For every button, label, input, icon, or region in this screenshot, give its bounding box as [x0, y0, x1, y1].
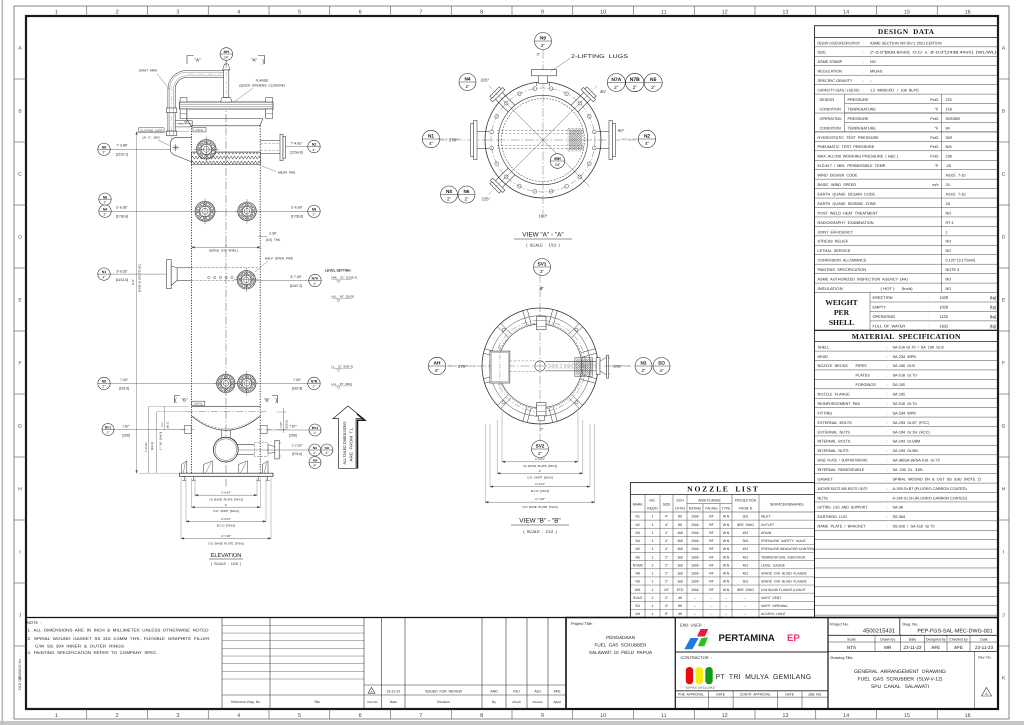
svg-text:AFE: AFE — [931, 645, 940, 650]
nozzle label N1 — [98, 268, 110, 280]
svg-text:W.N: W.N — [723, 539, 730, 543]
svg-text:BASE PLATE / SUPPORT/REPAD: BASE PLATE / SUPPORT/REPAD — [818, 459, 868, 463]
nozzle label SV1 — [534, 259, 551, 276]
svg-text:N4: N4 — [465, 77, 471, 82]
svg-text:MH: MH — [224, 50, 230, 54]
nozzle label BV1 — [102, 424, 114, 436]
svg-text:451: 451 — [743, 572, 749, 576]
svg-text:ISSUED FOR REVIEW: ISSUED FOR REVIEW — [425, 689, 463, 693]
svg-text:ASME SECTION VIII DIV.1 2021 E: ASME SECTION VIII DIV.1 2021 EDITION — [870, 41, 942, 45]
svg-text:PERTAMINA: PERTAMINA — [719, 633, 775, 644]
svg-text:SIZE: SIZE — [818, 51, 827, 55]
svg-text:NAME PLATE / BRACKET: NAME PLATE / BRACKET — [818, 525, 867, 529]
svg-text:3'-9.35": 3'-9.35" — [116, 269, 128, 273]
svg-text::: : — [863, 60, 864, 64]
nozzle N1 inlet — [167, 260, 172, 289]
vessel vertical centerline — [225, 60, 227, 487]
svg-text:4": 4" — [103, 275, 106, 279]
svg-text:0°: 0° — [537, 53, 541, 57]
svg-text:FITTING: FITTING — [818, 411, 833, 415]
svg-text:SCH: SCH — [676, 499, 684, 503]
bottom seam line and tag — [192, 405, 261, 407]
svg-text:270°: 270° — [449, 138, 458, 143]
svg-text:INSULATION: INSULATION ( HOT ) (Inch) — [818, 287, 914, 291]
svg-text:501: 501 — [743, 539, 749, 543]
svg-text:TEMPERATURE: TEMPERATURE — [848, 126, 877, 130]
nozzle label N6 — [458, 186, 475, 203]
svg-text:LEVEL GAUGE: LEVEL GAUGE — [761, 563, 786, 567]
center pipe section — [535, 361, 545, 371]
svg-text:DATE: DATE — [716, 693, 725, 697]
svg-text:SPARE C/W BLIND FLANGE: SPARE C/W BLIND FLANGE — [761, 580, 808, 584]
svg-text:24": 24" — [555, 163, 561, 167]
svg-text:REQ'D: REQ'D — [647, 507, 658, 511]
flange label leader — [234, 88, 253, 102]
svg-text:8": 8" — [435, 368, 440, 373]
svg-text:RF: RF — [709, 547, 714, 551]
svg-text:1'-7.85" [594.3]: 1'-7.85" [594.3] — [160, 432, 163, 450]
svg-text:[2256.8]: [2256.8] — [290, 151, 302, 155]
svg-text:( SCALE : 1/12 ): ( SCALE : 1/12 ) — [526, 243, 560, 248]
svg-text:15: 15 — [904, 713, 910, 719]
svg-text:12: 12 — [722, 713, 728, 719]
svg-text:STRESS RELIEF: STRESS RELIEF — [818, 240, 849, 244]
svg-text:REGULATION: REGULATION — [818, 70, 843, 74]
svg-text:Rev.No.: Rev.No. — [367, 700, 378, 704]
svg-text:HYDROSTATIC TEST PRESSURE: HYDROSTATIC TEST PRESSURE — [818, 136, 880, 140]
drain pipe to the right — [545, 360, 596, 362]
svg-text:451: 451 — [743, 563, 749, 567]
svg-text:PT TRI MULYA GEMILANG: PT TRI MULYA GEMILANG — [716, 674, 812, 681]
svg-text:REINFORCEMENT PAD: REINFORCEMENT PAD — [818, 402, 861, 406]
svg-text:RF: RF — [709, 555, 714, 559]
svg-text:INTERNAL NUTS: INTERNAL NUTS — [818, 449, 850, 453]
svg-text:STD: STD — [677, 588, 684, 592]
svg-text:POST WELD HEAT TREATMENT: POST WELD HEAT TREATMENT — [818, 211, 879, 215]
svg-text:CAPACITY (GAS / LIQUID): CAPACITY (GAS / LIQUID) — [818, 89, 861, 93]
svg-text:AH: AH — [434, 361, 441, 367]
svg-text::: : — [887, 525, 888, 529]
svg-text:NO: NO — [946, 278, 952, 282]
cone transition — [186, 118, 263, 120]
svg-text:150#: 150# — [691, 531, 699, 535]
svg-text:–: – — [711, 612, 713, 616]
drain flange and hub — [596, 358, 600, 375]
svg-text:9: 9 — [541, 10, 544, 16]
svg-text:SHELL: SHELL — [829, 318, 854, 327]
svg-text:NO: NO — [946, 240, 952, 244]
bolted flange face (front view) — [238, 202, 257, 221]
svg-text:N6: N6 — [464, 189, 470, 194]
svg-text:Date: Date — [909, 637, 916, 641]
svg-text:2A: 2A — [946, 202, 951, 206]
svg-text:ARE FROM T.L: ARE FROM T.L — [349, 427, 354, 462]
svg-text:1'-2.92": 1'-2.92" — [291, 443, 303, 447]
svg-text:NTS: NTS — [847, 645, 856, 650]
svg-text::: : — [887, 374, 888, 378]
half open pipe label — [255, 261, 268, 272]
skirt height dims rotated — [148, 406, 150, 473]
svg-text:HALF OPEN PIPE: HALF OPEN PIPE — [265, 257, 293, 261]
svg-text:WIND DESIGN CODE: WIND DESIGN CODE — [818, 174, 858, 178]
svg-text:PsiG: PsiG — [930, 136, 938, 140]
svg-text:[94.7]: [94.7] — [167, 422, 170, 428]
svg-text:[200.0]: [200.0] — [285, 420, 289, 429]
approval strip — [675, 690, 828, 692]
svg-text:2-LIFTING LUGS: 2-LIFTING LUGS — [571, 54, 629, 60]
lifting eye on stem — [223, 64, 231, 70]
svg-text:NOZZLE NECKS: NOZZLE NECKS — [818, 364, 849, 368]
svg-text:PHE APPROVAL: PHE APPROVAL — [678, 693, 704, 697]
svg-text:N6: N6 — [636, 555, 640, 559]
svg-text:5: 5 — [298, 10, 301, 16]
svg-text:F: F — [18, 361, 21, 367]
svg-text:2": 2" — [641, 368, 645, 373]
svg-text:LLL 15" [381]: LLL 15" [381] — [332, 382, 352, 386]
svg-text:Project No.: Project No. — [830, 623, 849, 627]
N2 dimension and label — [286, 146, 309, 148]
nozzle label N3 — [635, 358, 652, 375]
svg-text:MARK: MARK — [633, 503, 644, 507]
svg-text:1: 1 — [652, 555, 654, 559]
revision row: ISSUED FOR REVIEW — [364, 684, 566, 686]
nozzle label N2 — [308, 140, 320, 152]
svg-text:GENERAL ARRANGEMENT DRAWING: GENERAL ARRANGEMENT DRAWING — [854, 669, 946, 675]
svg-text:CONDITION: CONDITION — [820, 126, 842, 130]
table: DESIGN DATA — [815, 26, 999, 331]
nozzle stub at 45 deg — [565, 79, 603, 117]
vessel shell walls — [191, 126, 193, 412]
svg-text:ASME STAMP: ASME STAMP — [818, 60, 843, 64]
closure bolts right — [266, 98, 273, 102]
svg-text:24: 24 — [946, 183, 950, 187]
svg-text:2": 2" — [541, 43, 545, 48]
svg-text:150#: 150# — [691, 547, 699, 551]
svg-text:(QUICK OPENING CLOSURE): (QUICK OPENING CLOSURE) — [239, 84, 285, 88]
svg-text:H: H — [18, 487, 22, 493]
svg-text:2": 2" — [107, 431, 110, 435]
dimension stack under view B — [501, 412, 503, 462]
svg-text:PENGADAAN: PENGADAAN — [606, 635, 635, 640]
svg-text:VIEW "A" - "A": VIEW "A" - "A" — [522, 232, 563, 239]
svg-text:2": 2" — [633, 85, 638, 91]
svg-text:OLD DRAWING No. : ..´: OLD DRAWING No. : ..´ — [18, 652, 22, 690]
tailed dimensions arrow note — [333, 406, 364, 468]
drain flange (hidden) — [254, 443, 268, 457]
davit support bracket — [175, 121, 192, 127]
svg-text:[1152.0]: [1152.0] — [116, 278, 128, 282]
svg-text:SA-516 Gr.70: SA-516 Gr.70 — [893, 402, 917, 406]
svg-text:35/53/65: 35/53/65 — [946, 117, 961, 121]
svg-text:I.D BASE PLATE [549.6]: I.D BASE PLATE [549.6] — [523, 464, 557, 468]
project title box — [674, 618, 676, 710]
svg-text:PsiG: PsiG — [930, 155, 938, 159]
svg-text:4500215431: 4500215431 — [863, 628, 895, 635]
bottom dished head — [192, 416, 261, 430]
svg-text:501: 501 — [743, 580, 749, 584]
svg-text:°F: °F — [935, 107, 940, 111]
svg-text:10: 10 — [600, 10, 606, 16]
svg-text:11: 11 — [661, 713, 667, 719]
svg-text:270°: 270° — [458, 364, 467, 369]
svg-text:Review: Review — [533, 700, 544, 704]
svg-text::: : — [887, 515, 888, 519]
svg-text:N1: N1 — [428, 134, 434, 140]
svg-text:4. PAINTING SPECIFICATION R: 4. PAINTING SPECIFICATION REFER TO COMPA… — [28, 650, 157, 655]
svg-text:N8: N8 — [446, 189, 452, 194]
svg-text:ACCESS HOLE: ACCESS HOLE — [761, 612, 786, 616]
svg-text::: : — [887, 487, 888, 491]
svg-text:A-193 Gr.B7 (FLUORO CARBON COA: A-193 Gr.B7 (FLUORO CARBON COATED) — [893, 487, 968, 491]
svg-text:SA-516 Gr.70 / SA 106 Gr.B: SA-516 Gr.70 / SA 106 Gr.B — [893, 345, 945, 349]
bolted flange face (front view) — [195, 201, 215, 221]
svg-text:2": 2" — [104, 201, 107, 205]
svg-text:N3: N3 — [641, 361, 647, 366]
svg-text:SPECIFIC GRAVITY: SPECIFIC GRAVITY — [818, 79, 853, 83]
svg-text:SA-193 Gr.B8M: SA-193 Gr.B8M — [893, 440, 921, 444]
svg-text:ERECTION: ERECTION — [873, 295, 893, 300]
svg-text:SA-105: SA-105 — [893, 383, 906, 387]
svg-text:SA-194 Gr.2H (FCC): SA-194 Gr.2H (FCC) — [893, 430, 931, 434]
svg-text::: : — [928, 305, 929, 310]
svg-text::: : — [887, 345, 888, 349]
svg-text:PsiG: PsiG — [930, 98, 938, 102]
svg-text:CW-01: CW-01 — [195, 129, 204, 132]
svg-text:SKIRT OPENING: SKIRT OPENING — [761, 604, 788, 608]
svg-text:N3: N3 — [636, 531, 640, 535]
svg-text:NUTS: NUTS — [818, 496, 829, 500]
nozzle label N1 — [422, 130, 439, 147]
svg-text:0°: 0° — [540, 428, 544, 432]
svg-text:RF: RF — [709, 588, 714, 592]
svg-text:160: 160 — [677, 531, 683, 535]
svg-text:2": 2" — [313, 213, 316, 217]
svg-text:150#: 150# — [691, 580, 699, 584]
svg-text:N2: N2 — [644, 134, 650, 140]
svg-text:[1700.6]: [1700.6] — [116, 214, 128, 218]
svg-text:F: F — [1002, 361, 1005, 367]
svg-text:13: 13 — [782, 713, 788, 719]
svg-text:W.N: W.N — [723, 523, 730, 527]
svg-text:2": 2" — [103, 151, 106, 155]
svg-text:236: 236 — [946, 155, 952, 159]
svg-text:[609.6] O.D SHELL: [609.6] O.D SHELL — [209, 249, 238, 253]
svg-text:MESH PAD: MESH PAD — [278, 171, 296, 175]
bottom vent stub — [537, 403, 546, 416]
svg-text:7.20": 7.20" — [120, 378, 129, 382]
svg-text:AH: AH — [635, 612, 640, 616]
nozzle label MH — [220, 48, 233, 61]
svg-text:C: C — [1002, 172, 1006, 178]
svg-text:40: 40 — [678, 612, 682, 616]
svg-text:DATE: DATE — [785, 693, 794, 697]
svg-text:–: – — [725, 596, 727, 600]
svg-text:2: 2 — [116, 10, 119, 16]
svg-text:[579.0]: [579.0] — [292, 452, 302, 456]
svg-text:RF: RF — [709, 515, 714, 519]
svg-text:16: 16 — [965, 10, 971, 16]
svg-text:RF: RF — [709, 580, 714, 584]
svg-text:ANSI FLANGE: ANSI FLANGE — [698, 498, 721, 502]
svg-text:PRESSURE: PRESSURE — [848, 117, 869, 121]
drain elbow — [213, 437, 238, 462]
svg-text:C/W SS 304 INNER & OUTER: C/W SS 304 INNER & OUTER RINGS — [35, 644, 124, 649]
svg-text:O.D BASE PLATE [799.6]: O.D BASE PLATE [799.6] — [208, 541, 244, 545]
section cut marker A left — [187, 56, 194, 65]
svg-text:N5: N5 — [650, 77, 657, 83]
svg-text:TEMPERATURE: TEMPERATURE — [848, 107, 877, 111]
svg-text:"SERVICE EXCELLENCE": "SERVICE EXCELLENCE" — [685, 686, 717, 689]
svg-text::: : — [887, 355, 888, 359]
davit lower end — [166, 131, 177, 136]
svg-text:15: 15 — [904, 10, 910, 16]
svg-text:EARTH QUAKE DESAIN CODE: EARTH QUAKE DESAIN CODE — [818, 192, 876, 196]
svg-text:6: 6 — [359, 10, 362, 16]
svg-text:315°: 315° — [481, 78, 490, 83]
svg-text:D: D — [18, 235, 22, 241]
svg-text:2-LIFTING LUGS: 2-LIFTING LUGS — [140, 129, 163, 133]
grid reference ticks and numbers — [86, 6, 88, 16]
svg-text:N5: N5 — [102, 379, 106, 383]
svg-text:PLATES: PLATES — [856, 374, 871, 378]
svg-text::: : — [863, 89, 864, 93]
svg-text:SV1: SV1 — [538, 262, 547, 267]
svg-text:AH: AH — [313, 459, 318, 463]
nozzle label N7A — [607, 74, 625, 92]
svg-text:NO: NO — [870, 60, 876, 64]
svg-text:AFE: AFE — [954, 645, 963, 650]
shell flange circles — [485, 82, 601, 198]
svg-text:I: I — [1003, 550, 1004, 556]
section cut marker A right — [258, 56, 265, 65]
svg-text:Date: Date — [390, 700, 397, 704]
svg-text:3: 3 — [176, 713, 179, 719]
svg-text:270°: 270° — [614, 364, 623, 369]
svg-text:RADIOGRAPHY EXAMINATION: RADIOGRAPHY EXAMINATION — [818, 221, 874, 225]
svg-text::: : — [887, 383, 888, 387]
svg-text:HEAD: HEAD — [818, 355, 829, 359]
svg-text:ASCE 7-10: ASCE 7-10 — [946, 192, 966, 196]
nozzle label N8 — [441, 186, 458, 203]
section cut marker B left — [175, 396, 181, 404]
skirt access holes — [575, 328, 578, 331]
svg-text:451: 451 — [743, 531, 749, 535]
svg-text:N O Z Z L E L I S T: N O Z Z L E L I S T — [687, 485, 758, 494]
svg-text:NOTE :: NOTE : — [27, 620, 41, 625]
svg-text:0.38": 0.38" — [269, 231, 276, 235]
svg-text:N2: N2 — [636, 523, 640, 527]
N9 dimension and label (left) — [109, 148, 170, 150]
svg-text:LEVEL SETTING: LEVEL SETTING — [325, 269, 351, 273]
svg-text:PRESSURE INDICATOR CONTROL: PRESSURE INDICATOR CONTROL — [761, 547, 815, 551]
svg-text:3.11": 3.11" — [161, 422, 164, 427]
half open pipe (hidden) — [192, 266, 259, 268]
svg-text:°F: °F — [935, 164, 940, 168]
svg-text:80: 80 — [678, 604, 682, 608]
svg-text:4: 4 — [237, 10, 240, 16]
svg-text:225: 225 — [946, 98, 952, 102]
svg-text:2": 2" — [313, 385, 316, 389]
svg-text:RF: RF — [709, 523, 714, 527]
svg-text:0°: 0° — [540, 287, 544, 291]
svg-text:END USER :: END USER : — [680, 622, 705, 627]
svg-text:PROJECTION: PROJECTION — [735, 499, 757, 503]
svg-text:TEMPERATURE INDICATOR: TEMPERATURE INDICATOR — [761, 555, 806, 559]
svg-text:23-11-23: 23-11-23 — [975, 645, 993, 650]
shell top weld tag — [193, 128, 206, 132]
svg-text:SERVICE/REMARKS: SERVICE/REMARKS — [770, 503, 804, 507]
svg-text:2": 2" — [104, 213, 107, 217]
svg-text:ARD: ARD — [490, 689, 498, 693]
mesh pad label leader — [262, 166, 276, 172]
svg-text:[1097.2]: [1097.2] — [290, 284, 302, 288]
svg-text:8'-0": 8'-0" — [131, 279, 135, 285]
svg-text:B.C.D [709.6]: B.C.D [709.6] — [217, 523, 235, 527]
svg-text:N9: N9 — [636, 580, 640, 584]
nozzle label SO — [321, 444, 333, 456]
svg-text:N2: N2 — [312, 143, 316, 147]
svg-text:PIPES: PIPES — [856, 364, 868, 368]
svg-text::: : — [928, 295, 929, 300]
svg-text:1: 1 — [55, 10, 58, 16]
svg-text::: : — [887, 449, 888, 453]
svg-text:W.N: W.N — [723, 563, 730, 567]
svg-text:Drawn by: Drawn by — [880, 637, 895, 641]
svg-text:BV2: BV2 — [312, 426, 319, 430]
svg-text:SA-194 Gr.8M: SA-194 Gr.8M — [893, 449, 918, 453]
svg-text:(AT 0°, 180°): (AT 0°, 180°) — [142, 136, 160, 140]
svg-text:SA-516 Gr.70: SA-516 Gr.70 — [893, 374, 917, 378]
svg-text:160: 160 — [677, 539, 683, 543]
svg-text:RF: RF — [709, 572, 714, 576]
svg-text:2": 2" — [614, 85, 619, 90]
svg-text:VIEW "B" - "B": VIEW "B" - "B" — [519, 518, 560, 525]
flange bolts — [592, 146, 596, 150]
svg-text:N1: N1 — [636, 515, 640, 519]
svg-text:2'-7.48": 2'-7.48" — [535, 497, 545, 501]
nozzle label MH — [550, 154, 565, 169]
svg-text:PsiG: PsiG — [930, 117, 938, 121]
svg-text:MR: MR — [884, 645, 892, 650]
svg-text:NO.: NO. — [649, 499, 655, 503]
svg-text:I.D BASE PLATE [549.6]: I.D BASE PLATE [549.6] — [209, 497, 243, 501]
svg-text:NO: NO — [946, 249, 952, 253]
nozzle label N4 — [99, 205, 111, 217]
svg-text:[kg]: [kg] — [990, 314, 996, 319]
base plate — [179, 473, 273, 476]
svg-text:SA-106 Gr.B: SA-106 Gr.B — [893, 364, 916, 368]
svg-text:INTERNAL BOLTS: INTERNAL BOLTS — [818, 440, 851, 444]
svg-text:Project Title :: Project Title : — [571, 621, 594, 626]
svg-text:–: – — [745, 604, 747, 608]
table: MATERIAL SPECIFICATION — [815, 330, 999, 617]
svg-text:–: – — [745, 596, 747, 600]
svg-text:1: 1 — [946, 230, 948, 234]
svg-text:EMPTY: EMPTY — [873, 305, 887, 310]
svg-text:SS-304: SS-304 — [893, 515, 906, 519]
svg-text:Date: Date — [980, 637, 987, 641]
svg-text:SPIRAL WOUND (IN & OUT SS: SPIRAL WOUND (IN & OUT SS 316) (NOTE 2) — [893, 477, 982, 481]
svg-text:RF: RF — [709, 539, 714, 543]
nozzle label N2 — [638, 130, 655, 147]
svg-text:[200]: [200] — [122, 433, 130, 437]
nozzle label SO — [653, 358, 670, 375]
svg-text:5'-6.93": 5'-6.93" — [116, 206, 128, 210]
svg-text:PRESSURE SAFETY VALVE: PRESSURE SAFETY VALVE — [761, 539, 807, 543]
svg-text::: : — [928, 324, 929, 329]
svg-text:2": 2" — [464, 196, 468, 201]
svg-text:SS-316 / SA-516 Gr.70: SS-316 / SA-516 Gr.70 — [893, 525, 935, 529]
